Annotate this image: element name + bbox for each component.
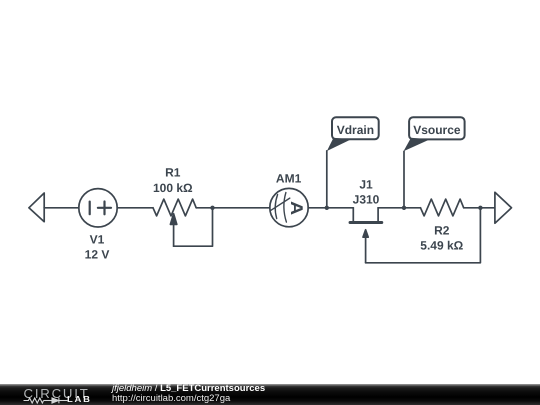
svg-text:Vdrain: Vdrain <box>337 123 374 137</box>
svg-text:Vsource: Vsource <box>413 123 461 137</box>
svg-text:5.49 kΩ: 5.49 kΩ <box>420 239 463 253</box>
svg-text:J310: J310 <box>353 192 380 206</box>
svg-text:R2: R2 <box>434 224 450 238</box>
svg-text:12 V: 12 V <box>85 247 110 261</box>
svg-text:R1: R1 <box>165 166 181 180</box>
svg-text:AM1: AM1 <box>276 172 302 186</box>
svg-text:100 kΩ: 100 kΩ <box>153 181 193 195</box>
svg-text:V1: V1 <box>90 232 105 246</box>
svg-text:J1: J1 <box>359 178 373 192</box>
svg-text:A: A <box>287 201 306 215</box>
